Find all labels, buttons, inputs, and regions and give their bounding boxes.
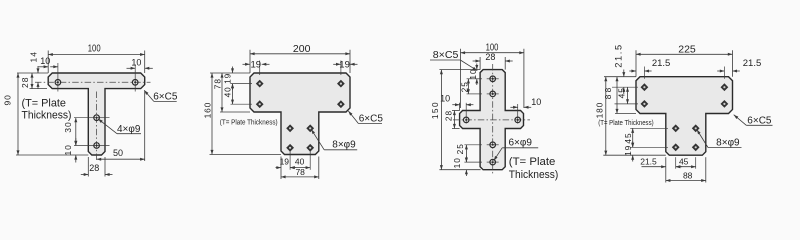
svg-text:(T= Plate: (T= Plate [509,156,556,168]
svg-text:19: 19 [339,59,350,70]
hole F1 stem top [94,115,100,121]
hole F4 stem bottom-left [672,143,680,151]
dimension F1 90 left [17,73,19,155]
dimension F4 21.5 bottom [642,166,666,168]
svg-text:6×C5: 6×C5 [359,114,384,125]
svg-text:150: 150 [430,101,440,119]
svg-text:6×C5: 6×C5 [153,91,178,102]
dimension F2 40 left col [232,84,234,105]
dimension F3 10 upper stem [476,64,478,70]
dimension F4 19 stem left [632,141,634,147]
plate outline F3 [460,70,524,170]
svg-text:19: 19 [623,145,633,156]
dimension F2 19 top-right [333,63,340,65]
dimension F4 225 top [636,53,732,55]
centerline F1 stem vertical [96,92,98,161]
svg-text:19: 19 [251,59,262,70]
dimension F2 200 top [250,53,350,55]
dimension F3 10 left arm [452,104,459,106]
svg-text:Thickness): Thickness) [22,110,72,122]
hole F4 bar right row1 [721,83,729,91]
svg-text:45: 45 [623,132,633,143]
hole F3 left arm [463,117,469,123]
svg-text:50: 50 [113,148,123,158]
hole F1 bar left [55,80,61,86]
hole F2 stem bottom-right [306,144,314,152]
svg-text:(T= Plate: (T= Plate [22,98,67,110]
dimension F2 19 top-left [243,63,250,65]
hole F4 stem top-right [692,124,700,132]
dimension F3 25 lower stem [465,145,467,162]
svg-text:10: 10 [63,144,73,155]
label F1 4xphi9 with leader [98,119,117,134]
label F4 6xC5 with leader [734,115,747,126]
hole F1 stem bottom [94,143,100,149]
centerline F1 stem hole 1 horizontal [74,117,110,119]
dimension F3 150 left [440,70,442,170]
dimension F1 100 top [48,54,145,56]
svg-text:25: 25 [460,81,470,92]
dimension F3 10 right arm [510,106,517,108]
svg-text:88: 88 [683,170,693,180]
svg-text:21.5: 21.5 [613,43,623,68]
svg-text:45: 45 [679,157,689,167]
label F1 6xC5 with leader [144,90,154,101]
hole F2 stem bottom-left [286,144,294,152]
label F3 6xphi9 with leader [494,148,503,161]
plate outline F2 [250,73,350,155]
centerline F3 vertical [492,64,494,176]
hole F3 top arm 1 [490,76,496,82]
dimension F3 100 top [461,52,524,54]
dimension F4 88 left [616,77,618,114]
dimension F2 160 left [211,73,213,155]
dimension F4 45 bottom [676,166,696,168]
svg-text:200: 200 [293,43,311,55]
hole F3 bottom arm 2 [490,159,496,165]
svg-text:28: 28 [89,163,99,173]
svg-text:10: 10 [40,56,50,66]
dimension F2 78 left [221,73,223,112]
hole F2 bar left row1 [256,80,264,88]
hole F1 bar right [132,80,138,86]
plate outline F1 [48,73,145,155]
dimension F3 25 upper stem [467,79,469,94]
svg-text:Thickness): Thickness) [509,169,559,181]
svg-text:6×C5: 6×C5 [747,115,772,126]
svg-text:78: 78 [295,167,305,177]
dimension F4 180 left [605,77,607,156]
svg-text:8×φ9: 8×φ9 [716,137,740,148]
dimension F2 19 left col [232,67,234,74]
label F2 6xC5 with leader [348,111,358,124]
hole F3 top arm 2 [490,91,496,97]
centerline F1 stem hole 2 horizontal [74,145,110,147]
svg-text:21.5: 21.5 [640,157,657,167]
hole F2 stem top-right [306,124,314,132]
hole F2 bar right row1 [337,80,345,88]
svg-text:21.5: 21.5 [652,58,671,69]
dimension F4 88 bottom [666,180,706,182]
svg-text:6×φ9: 6×φ9 [508,138,532,149]
dimension F4 21.5 top second [717,70,724,72]
svg-text:10: 10 [131,57,141,67]
dimension F2 19 bottom [276,167,282,169]
hole F4 bar left row1 [641,83,649,91]
centerline F1 bar horizontal [35,81,151,83]
hole F4 stem bottom-right [692,143,700,151]
dimension F4 45 stem left [632,128,634,147]
dimension F1 50 bottom [97,158,145,160]
dimension F3 10 lower stem [465,156,467,162]
svg-text:14: 14 [28,51,38,62]
svg-text:45: 45 [617,87,627,98]
centerline F3 horizontal [453,119,530,121]
extension lines F4 [635,50,637,76]
plate outline F4 [636,77,733,156]
svg-text:28: 28 [443,110,453,121]
dimension F2 40 bottom [290,167,310,169]
svg-text:4×φ9: 4×φ9 [117,124,141,135]
label F4 8xphi9 with leader [697,130,708,148]
svg-text:100: 100 [88,43,101,55]
svg-text:10: 10 [452,157,462,168]
svg-text:40: 40 [295,156,305,166]
dimension F4 21.5 top first [629,70,636,72]
hole F3 bottom arm 1 [490,142,496,148]
centerline F1 bar hole left vertical [57,63,59,92]
dimension F4 45 left [627,87,629,104]
svg-text:180: 180 [594,102,604,119]
dimension F2 78 bottom [281,176,319,178]
centerline F1 bar hole right vertical [134,65,136,92]
svg-text:19: 19 [280,156,290,166]
extension lines F2 [249,50,251,73]
label F2 8xphi9 with leader [311,129,324,150]
svg-text:28: 28 [485,52,495,62]
svg-text:25: 25 [455,143,465,154]
dimension F1 10 stem-bottom [75,138,77,146]
hole F2 bar left row2 [256,100,264,108]
svg-text:78: 78 [213,78,223,89]
dimension F1 14 left [37,66,39,73]
dimension F3 28 top [473,60,481,62]
dimension F1 28 bottom [81,174,89,176]
dimension F1 28 left [31,73,33,89]
dimension F1 30 stem [75,118,77,146]
svg-text:21.5: 21.5 [743,58,762,69]
svg-text:40: 40 [223,86,233,97]
dimension F4 21.5 rotated top-left [623,70,625,77]
svg-text:8×φ9: 8×φ9 [332,140,356,151]
hole F2 stem top-left [286,124,294,132]
extension lines F1 [47,51,49,74]
svg-text:30: 30 [63,121,73,132]
svg-text:10: 10 [531,97,541,107]
dimension F3 28 left arm [453,111,455,129]
svg-text:(T= Plate Thickness): (T= Plate Thickness) [220,120,278,127]
hole F3 right arm [515,117,521,123]
svg-text:19: 19 [223,73,233,84]
dimension F1 10 top-right [127,67,136,69]
hole F4 stem top-left [672,124,680,132]
hole F4 bar right row2 [721,100,729,108]
extension lines F3 [460,49,462,108]
hole F2 bar right row2 [337,100,345,108]
dimension F1 10 top-left [39,66,49,68]
svg-text:160: 160 [202,102,212,119]
svg-text:90: 90 [3,94,13,105]
svg-text:8×C5: 8×C5 [433,50,459,61]
svg-text:(T= Plate Thickness): (T= Plate Thickness) [598,120,653,127]
svg-text:225: 225 [678,44,696,56]
hole F4 bar left row2 [641,100,649,108]
svg-text:28: 28 [20,76,30,87]
svg-text:88: 88 [603,86,613,100]
